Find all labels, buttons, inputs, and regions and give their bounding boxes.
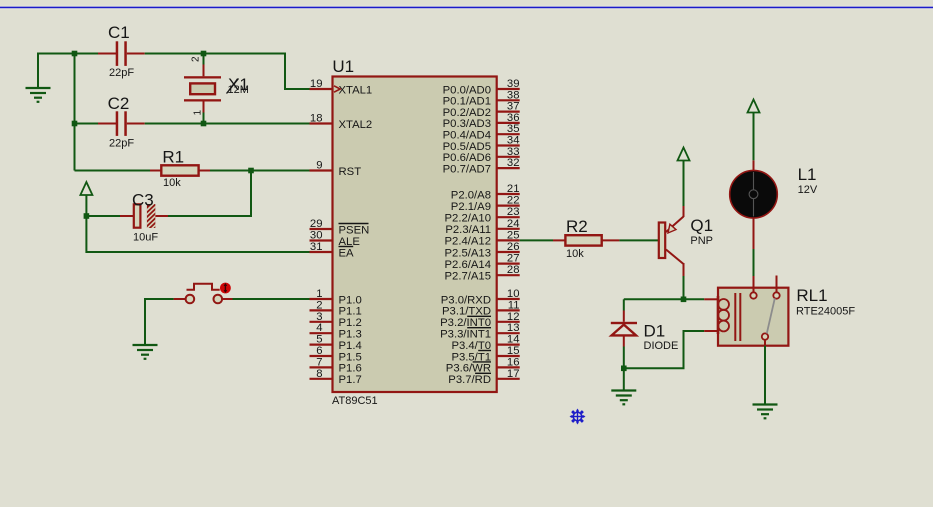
svg-text:P2.1/A9: P2.1/A9 [451, 201, 491, 213]
svg-text:P1.6: P1.6 [339, 363, 362, 375]
svg-text:10: 10 [507, 288, 520, 300]
wire crystal bottom to XTAL2 pin 18 [204, 123, 310, 125]
pin 8 (P1.7) [310, 368, 362, 386]
svg-text:5: 5 [316, 334, 322, 346]
svg-text:17: 17 [507, 368, 520, 380]
button actuator (red) [220, 283, 231, 294]
svg-text:27: 27 [507, 253, 520, 265]
svg-text:12M: 12M [228, 84, 249, 96]
svg-text:19: 19 [310, 78, 323, 90]
pin 23 (P2.2/A10) [445, 206, 520, 224]
svg-text:RTE24005F: RTE24005F [796, 305, 855, 317]
svg-text:2: 2 [191, 56, 202, 62]
svg-text:15: 15 [507, 345, 520, 357]
pin 5 (P1.4) [310, 334, 362, 352]
ground (C1 left) [26, 88, 51, 102]
svg-text:16: 16 [507, 356, 520, 368]
ground (relay) [753, 405, 778, 419]
svg-text:37: 37 [507, 101, 520, 113]
svg-text:P1.7: P1.7 [339, 374, 362, 386]
svg-text:9: 9 [316, 160, 322, 172]
svg-text:P2.0/A8: P2.0/A8 [451, 189, 491, 201]
svg-text:22pF: 22pF [109, 137, 134, 149]
wire D1 node to relay coil bottom [624, 331, 704, 368]
junction node [621, 366, 627, 372]
transistor Q1 [659, 206, 684, 276]
wire R1 to RST pin 9 [210, 170, 310, 172]
crystal X1 [184, 54, 221, 124]
svg-text:P2.5/A13: P2.5/A13 [445, 247, 491, 259]
svg-text:U1: U1 [332, 57, 354, 76]
wire lamp to power [753, 113, 755, 161]
svg-text:13: 13 [507, 322, 520, 334]
svg-text:PSEN: PSEN [339, 224, 370, 236]
svg-text:7: 7 [316, 356, 322, 368]
pin 22 (P2.1/A9) [451, 195, 520, 213]
wire R2 to Q1 base [619, 239, 658, 241]
svg-text:C2: C2 [108, 94, 130, 113]
pin 24 (P2.3/A11) [445, 218, 519, 236]
svg-text:21: 21 [507, 183, 520, 195]
resistor R2 [553, 235, 619, 245]
pin 39 (P0.0/AD0) [443, 78, 520, 96]
svg-text:P3.0/RXD: P3.0/RXD [441, 294, 491, 306]
junction node [201, 51, 207, 57]
wire C1 left [75, 53, 99, 55]
svg-text:R1: R1 [162, 148, 184, 167]
pin 13 (P3.3/INT1) [440, 322, 520, 340]
svg-text:P1.1: P1.1 [339, 306, 362, 318]
wire crystal top to XTAL1 pin 19 [204, 54, 310, 90]
pin 21 (P2.0/A8) [451, 183, 520, 201]
svg-text:30: 30 [310, 230, 323, 242]
capacitor C3 [120, 201, 168, 234]
svg-text:PNP: PNP [690, 235, 713, 247]
pin 33 (P0.6/AD6) [443, 146, 520, 164]
svg-text:33: 33 [507, 146, 520, 158]
pin 31 (EA) [310, 241, 355, 259]
pin 10 (P3.0/RXD) [441, 288, 520, 306]
ground (D1) [611, 391, 636, 405]
microcontroller U1 AT89C51 [333, 77, 497, 393]
svg-text:P0.7/AD7: P0.7/AD7 [443, 163, 491, 175]
pin 12 (P3.2/INT0) [440, 311, 520, 329]
svg-text:22pF: 22pF [109, 67, 134, 79]
svg-text:11: 11 [508, 299, 520, 311]
pin 9 (RST) [310, 160, 362, 178]
svg-text:Q1: Q1 [690, 216, 713, 235]
wire gnd to C1 [38, 54, 75, 89]
svg-text:23: 23 [507, 206, 520, 218]
svg-text:26: 26 [507, 241, 520, 253]
pin 36 (P0.3/AD3) [443, 112, 520, 130]
power symbol (Q1 emitter) [678, 148, 690, 161]
pin 38 (P0.1/AD1) [443, 89, 520, 107]
wire C2 left [75, 123, 99, 125]
pin 30 (ALE) [310, 230, 361, 248]
pin 32 (P0.7/AD7) [443, 157, 520, 175]
svg-text:39: 39 [507, 78, 520, 90]
svg-text:EA: EA [339, 247, 355, 259]
svg-text:12V: 12V [798, 184, 818, 196]
svg-text:10uF: 10uF [133, 232, 158, 244]
wire node to relay coil top [684, 298, 705, 300]
svg-text:P1.4: P1.4 [339, 340, 362, 352]
svg-text:6: 6 [316, 345, 322, 357]
svg-text:P0.3/AD3: P0.3/AD3 [443, 118, 491, 130]
svg-text:DIODE: DIODE [644, 340, 679, 352]
resistor R1 [150, 165, 210, 175]
pin 2 (P1.1) [310, 299, 362, 317]
pin 18 (XTAL2) [310, 113, 373, 131]
pin 17 (P3.7/RD) [448, 368, 519, 386]
svg-text:34: 34 [507, 135, 520, 147]
capacitor C2 [98, 111, 145, 136]
svg-text:P0.0/AD0: P0.0/AD0 [443, 84, 491, 96]
svg-text:P1.0: P1.0 [339, 294, 362, 306]
wire C1 to crystal top [145, 53, 204, 55]
wire node to D1 [624, 298, 684, 300]
svg-text:29: 29 [310, 218, 323, 230]
pin 35 (P0.4/AD4) [443, 123, 520, 141]
pin 29 (PSEN) [310, 218, 370, 236]
wire relay contact to ground [764, 346, 766, 405]
pin 15 (P3.5/T1) [451, 345, 519, 363]
pin 34 (P0.5/AD5) [443, 135, 520, 153]
pin 27 (P2.6/A14) [445, 253, 520, 271]
svg-text:28: 28 [507, 264, 520, 276]
svg-text:RST: RST [339, 166, 362, 178]
relay RL1 [704, 276, 788, 346]
svg-text:D1: D1 [644, 322, 666, 341]
svg-text:P2.2/A10: P2.2/A10 [445, 213, 491, 225]
svg-text:P1.2: P1.2 [339, 317, 362, 329]
svg-text:31: 31 [310, 241, 323, 253]
svg-text:P0.4/AD4: P0.4/AD4 [443, 130, 491, 142]
origin marker [570, 409, 586, 425]
junction node [72, 51, 78, 57]
svg-text:P3.7/RD: P3.7/RD [448, 374, 491, 386]
svg-text:1: 1 [193, 110, 204, 116]
ground (button) [133, 345, 158, 359]
wire C2 to crystal bottom [145, 123, 204, 125]
svg-text:P0.6/AD6: P0.6/AD6 [443, 152, 491, 164]
svg-text:P1.5: P1.5 [339, 351, 362, 363]
pin 16 (P3.6/WR) [446, 356, 520, 374]
junction node [72, 121, 78, 127]
svg-text:8: 8 [316, 368, 322, 380]
svg-text:25: 25 [507, 229, 520, 241]
svg-text:P2.6/A14: P2.6/A14 [445, 259, 491, 271]
push button [174, 284, 233, 304]
wire left vertical [74, 54, 76, 171]
wire button left to ground [233, 298, 310, 300]
pin 26 (P2.5/A13) [445, 241, 520, 259]
svg-text:P1.3: P1.3 [339, 329, 362, 341]
wire lamp to relay contact [753, 249, 755, 276]
pin 14 (P3.4/T0) [451, 334, 519, 352]
svg-text:P0.1/AD1: P0.1/AD1 [443, 96, 491, 108]
wire P2.4 pin 25 to R2 [520, 239, 553, 241]
svg-text:38: 38 [507, 89, 520, 101]
pin 37 (P0.2/AD2) [443, 101, 520, 119]
pin 25 (P2.4/A12) [445, 229, 520, 247]
svg-text:P3.3/INT1: P3.3/INT1 [440, 329, 491, 341]
wire button to P1.0 pin 1 [145, 299, 174, 345]
svg-text:35: 35 [507, 123, 520, 135]
pin 28 (P2.7/A15) [445, 264, 520, 282]
svg-text:P2.3/A11: P2.3/A11 [445, 224, 491, 236]
pin 11 (P3.1/TXD) [442, 299, 520, 317]
wire power to C3 node [85, 195, 87, 216]
junction node [681, 297, 687, 303]
svg-text:3: 3 [316, 311, 322, 323]
wire to R1 [75, 170, 151, 172]
svg-text:XTAL2: XTAL2 [339, 119, 373, 131]
wire C3 left [86, 215, 120, 217]
svg-text:2: 2 [316, 299, 322, 311]
pin 1 (P1.0) [310, 288, 362, 306]
svg-text:4: 4 [316, 322, 322, 334]
pin 4 (P1.3) [310, 322, 362, 340]
pin 7 (P1.6) [310, 356, 362, 374]
svg-text:P2.7/A15: P2.7/A15 [445, 271, 491, 283]
svg-text:L1: L1 [798, 165, 817, 184]
svg-text:10k: 10k [163, 177, 181, 189]
junction node [201, 121, 207, 127]
lamp L1 [730, 160, 778, 249]
junction node [248, 168, 254, 174]
wire D1 to ground [623, 368, 625, 390]
diode D1 [611, 299, 637, 368]
capacitor C1 [98, 41, 145, 66]
pin 6 (P1.5) [310, 345, 362, 363]
svg-text:10k: 10k [566, 248, 584, 260]
svg-text:AT89C51: AT89C51 [332, 395, 378, 407]
svg-text:RL1: RL1 [796, 286, 827, 305]
svg-text:18: 18 [310, 113, 323, 125]
svg-text:32: 32 [507, 157, 520, 169]
svg-text:P2.4/A12: P2.4/A12 [445, 236, 491, 248]
svg-text:24: 24 [507, 218, 520, 230]
wire Q1 collector down [683, 276, 685, 299]
svg-text:36: 36 [507, 112, 520, 124]
svg-text:C1: C1 [108, 23, 130, 42]
svg-text:P0.2/AD2: P0.2/AD2 [443, 107, 491, 119]
wire R1 node to C3 [168, 171, 251, 217]
pin 19 (XTAL1) [310, 78, 373, 96]
svg-text:XTAL1: XTAL1 [339, 84, 373, 96]
svg-text:R2: R2 [566, 217, 588, 236]
svg-text:22: 22 [507, 195, 520, 207]
pin 3 (P1.2) [310, 311, 362, 329]
svg-text:P0.5/AD5: P0.5/AD5 [443, 141, 491, 153]
wire Q1 emitter to power [683, 161, 685, 207]
power symbol (RST network) [80, 182, 92, 195]
power symbol (L1) [748, 100, 760, 113]
wire to EA pin 31 [86, 216, 309, 252]
svg-text:14: 14 [507, 334, 520, 346]
junction node [84, 213, 90, 219]
svg-text:C3: C3 [132, 190, 154, 209]
svg-text:1: 1 [316, 288, 322, 300]
svg-text:12: 12 [507, 311, 520, 323]
